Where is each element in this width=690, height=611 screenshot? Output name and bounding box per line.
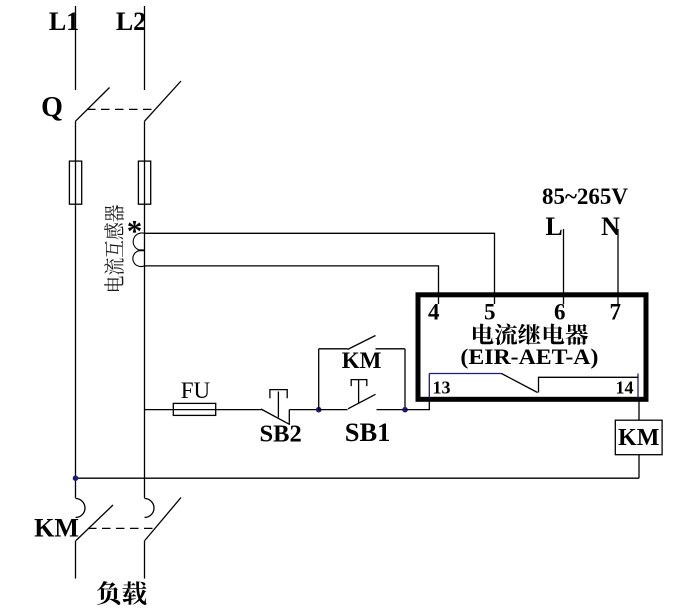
- contactor KM linkage dashed line: [88, 527, 156, 529]
- switch Q linkage dashed line: [87, 108, 156, 110]
- contactor coil KM box: [615, 420, 662, 455]
- node junction dot SB2/KM-branch: [316, 407, 322, 413]
- svg-text:6: 6: [554, 300, 566, 325]
- contactor KM main contact 1 blade: [76, 505, 113, 541]
- current transformer label 电流互感器 (rotated): [104, 205, 124, 291]
- wire control rail SB1 right lead: [377, 409, 406, 411]
- svg-text:L2: L2: [116, 7, 146, 36]
- wire CT secondary bottom to relay pin 4: [145, 266, 439, 304]
- svg-text:85~265V: 85~265V: [542, 184, 628, 209]
- svg-text:Q: Q: [41, 92, 63, 123]
- wire KM holding branch left riser: [318, 349, 320, 410]
- svg-text:5: 5: [484, 300, 496, 325]
- wire junction to relay pin 13: [405, 398, 429, 410]
- wire L1 between switch and fuse: [75, 121, 77, 161]
- wire load leg 1: [75, 541, 77, 579]
- current transformer winding arc 2: [133, 251, 145, 267]
- wire relay pin 14 down to contactor coil: [638, 398, 640, 420]
- wire KM holding branch top right: [376, 348, 406, 350]
- svg-text:KM: KM: [618, 425, 659, 451]
- svg-text:4: 4: [428, 300, 440, 325]
- relay contact 14 lead: [539, 377, 639, 392]
- relay contact 13-14 blade: [502, 374, 538, 393]
- svg-text:14: 14: [616, 378, 634, 398]
- wire L2 run from fuse to CT: [144, 204, 146, 498]
- svg-text:7: 7: [610, 300, 622, 325]
- svg-text:KM: KM: [34, 514, 79, 543]
- wire KM holding branch top left: [319, 348, 348, 350]
- svg-text:13: 13: [433, 378, 451, 398]
- wire L1 feeder top segment: [75, 6, 77, 90]
- relay name label 电流继电器: [473, 324, 588, 346]
- contactor KM main contact 2 arc: [145, 499, 155, 518]
- svg-text:*: *: [127, 213, 143, 248]
- wire control rail from L2 through FU to SB2: [145, 409, 262, 411]
- pushbutton SB2 fixed contact tick: [288, 410, 290, 425]
- wire KM holding branch right riser: [404, 349, 406, 410]
- relay output contact sub-box: [429, 374, 638, 399]
- wire bottom return rail: [76, 477, 640, 479]
- node junction dot SB1/pin13: [402, 407, 408, 413]
- wire CT secondary top to relay pin 5: [145, 233, 495, 304]
- auxiliary contact KM (NO) blade: [348, 336, 376, 350]
- svg-text:FU: FU: [181, 378, 211, 403]
- pushbutton SB1 (NO) blade: [348, 394, 376, 409]
- svg-text:SB1: SB1: [345, 417, 391, 447]
- current relay U1 box (EIR-AET-A): [418, 295, 646, 400]
- contactor KM main contact 1 arc: [76, 499, 86, 518]
- wire L2 between switch and fuse: [144, 121, 146, 161]
- fuse on L1 (wire passes through): [75, 161, 77, 204]
- wire SB2 to junction: [289, 409, 318, 411]
- svg-text:L1: L1: [49, 7, 79, 36]
- svg-text:N: N: [601, 212, 620, 241]
- pushbutton SB2 actuator cap and stem: [270, 390, 287, 418]
- node junction dot return rail to L1: [73, 475, 79, 481]
- svg-text:KM: KM: [342, 348, 382, 373]
- svg-text:SB2: SB2: [259, 421, 301, 448]
- disconnect switch Q pole 2 blade: [145, 81, 182, 121]
- pushbutton SB1 actuator cap and stem: [351, 380, 367, 404]
- contactor KM main contact 2 blade: [145, 498, 181, 541]
- pushbutton SB2 (NC) blade: [261, 409, 290, 425]
- wire coil bottom to return rail: [638, 455, 640, 479]
- wire L2 feeder top segment: [144, 6, 146, 90]
- current transformer winding arc 1: [133, 233, 144, 250]
- wire L supply to relay pin 6: [563, 229, 565, 304]
- wire N supply to relay pin 7: [617, 229, 619, 304]
- wire L1 main run down to bottom junction: [75, 204, 77, 498]
- svg-text:L: L: [545, 212, 562, 241]
- fuse on L2 (wire passes through): [144, 161, 146, 204]
- wire load leg 2: [144, 541, 146, 579]
- svg-text:(EIR-AET-A): (EIR-AET-A): [460, 344, 598, 369]
- load label 负载: [97, 581, 147, 605]
- fuse FU rectangle: [173, 403, 215, 415]
- disconnect switch Q pole 1 blade: [76, 88, 110, 122]
- wire control rail SB1 left lead: [319, 409, 348, 411]
